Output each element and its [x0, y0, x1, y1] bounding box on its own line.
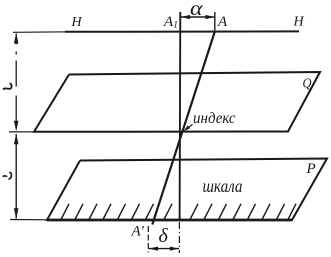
svg-text:индекс: индекс	[193, 110, 236, 127]
svg-text:1: 1	[173, 20, 178, 30]
dimension delta: right arrowhead	[170, 247, 179, 251]
dimension delta: dimension line	[149, 248, 179, 250]
svg-text:шкала: шкала	[203, 176, 243, 196]
dimension alpha: dimension line	[181, 16, 215, 18]
wire: dashed extension of index line below scale	[178, 222, 180, 253]
line H (horizontal straight line at top)	[13, 31, 70, 34]
svg-text:Н: Н	[71, 15, 83, 30]
dimension alpha: extension line at A	[214, 12, 216, 31]
svg-text:Н: Н	[293, 15, 305, 30]
svg-text:A: A	[217, 14, 228, 30]
svg-text:α: α	[190, 0, 204, 20]
index leader arrow	[186, 125, 193, 130]
pointer line A-A' (slanted line)	[152, 31, 215, 225]
svg-text:Q: Q	[303, 77, 312, 92]
dimension delta: left extension line (below A')	[147, 226, 149, 253]
dimension l: top arrowhead	[14, 134, 19, 145]
dimension alpha: left arrowhead	[181, 15, 190, 19]
svg-text:δ: δ	[159, 225, 169, 247]
dimension l: bottom arrowhead	[14, 208, 19, 219]
wire: left extension of Q bottom edge	[9, 131, 36, 133]
label l (rotated)	[3, 176, 7, 177]
svg-text:A′: A′	[131, 224, 145, 240]
wire: left extension of P bottom edge	[10, 219, 49, 221]
hatching on scale edge	[61, 204, 296, 220]
label L (rotated)	[3, 84, 12, 90]
plane Q (upper parallelogram)	[34, 72, 320, 132]
plane P (lower parallelogram, шкала plane)	[47, 159, 327, 221]
dimension l: dimension line	[15, 134, 17, 219]
dimension L: dash-dot dimension line	[15, 34, 17, 132]
scale base edge (thick bottom edge of P)	[47, 219, 292, 222]
dimension L: bottom arrowhead	[14, 121, 19, 132]
index line (vertical line through A1)	[179, 12, 182, 221]
svg-text:P: P	[306, 161, 316, 177]
dimension L: top arrowhead	[14, 33, 19, 44]
dimension delta: right extension line	[178, 252, 180, 254]
dimension alpha: right arrowhead	[205, 15, 214, 19]
dimension delta: left arrowhead	[149, 247, 158, 251]
